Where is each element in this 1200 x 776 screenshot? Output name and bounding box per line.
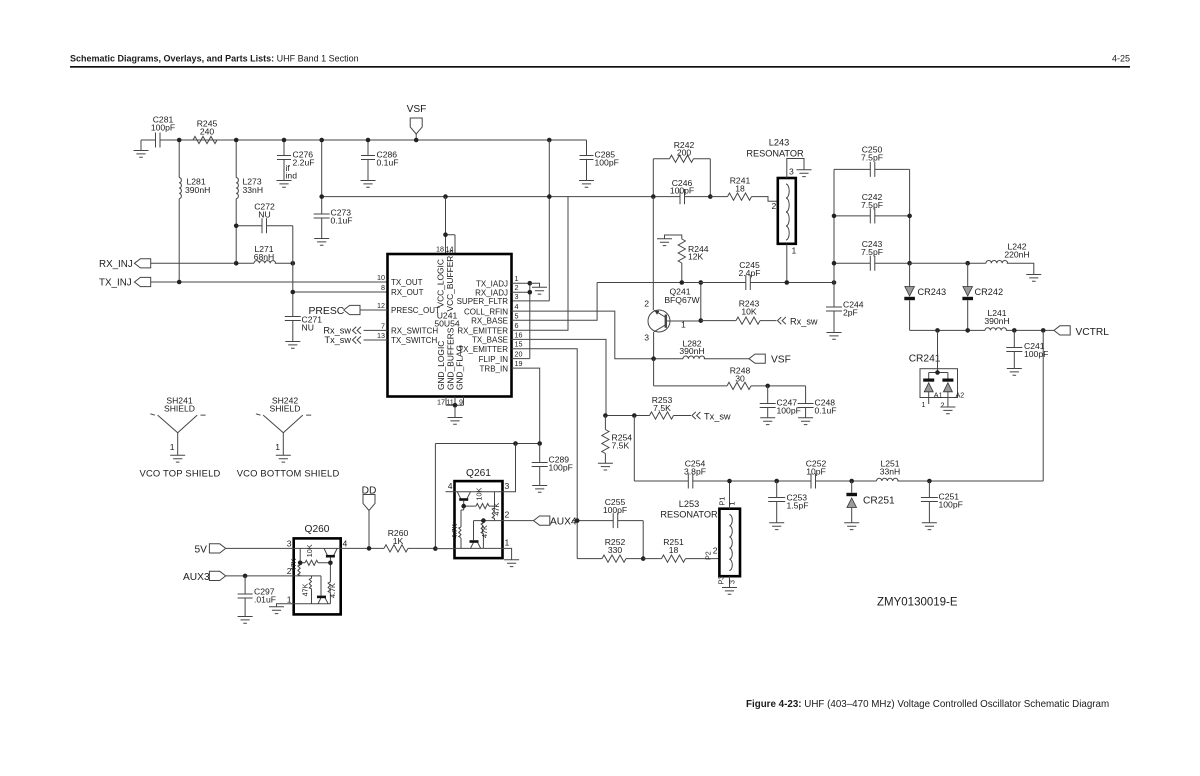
wire AUX3 to Q260 pin2 xyxy=(226,575,294,577)
svg-text:1: 1 xyxy=(505,538,510,548)
capacitor C251 xyxy=(928,481,930,523)
net stub Rx_sw (R243) xyxy=(778,317,786,324)
svg-text:15: 15 xyxy=(515,340,523,349)
internal lower transistor xyxy=(471,542,481,548)
wire R260 into Q261 xyxy=(435,548,454,550)
capacitor C271 (NU) xyxy=(285,317,301,342)
svg-text:TX_INJ: TX_INJ xyxy=(99,278,132,289)
pin 1 wire Q260 to ground xyxy=(277,604,294,607)
svg-text:A1: A1 xyxy=(934,390,943,399)
internal junction dots Q261 xyxy=(461,504,466,509)
junction dots C246/R242 xyxy=(651,194,656,199)
pin 2 wire Q261 to AUX4 xyxy=(503,520,534,522)
wire RX_OUT pin 8 to C271 column xyxy=(293,263,388,316)
varactor CR243 xyxy=(909,263,911,286)
ground for SH242 xyxy=(276,455,291,462)
junction dots Tx_sw rail xyxy=(603,413,608,418)
junction dot base column top xyxy=(699,280,704,285)
svg-text:33nH: 33nH xyxy=(243,185,264,195)
ground for C285 xyxy=(579,181,594,188)
connector AUX3 xyxy=(209,571,225,580)
svg-text:5: 5 xyxy=(515,311,519,320)
transistor pack Q261 box xyxy=(455,481,503,558)
svg-text:30: 30 xyxy=(735,374,745,384)
junction dot C272 left xyxy=(234,224,239,229)
capacitor bank verticals xyxy=(834,169,910,282)
svg-text:13: 13 xyxy=(377,331,385,340)
capacitor C285 xyxy=(586,140,588,181)
internal lower transistor Q260 xyxy=(318,598,328,604)
svg-text:L253: L253 xyxy=(679,499,699,509)
capacitor C289 xyxy=(539,444,541,486)
wire Q241 emitter node xyxy=(654,332,749,359)
internal bottom rail Q260 xyxy=(294,603,331,605)
svg-text:Rx_sw: Rx_sw xyxy=(790,317,818,327)
internal 4.7K resistor left xyxy=(461,506,464,548)
svg-text:7.5pF: 7.5pF xyxy=(861,200,883,210)
svg-text:Figure 4-23: UHF (403–470 MHz): Figure 4-23: UHF (403–470 MHz) Voltage C… xyxy=(746,699,1109,710)
junction dot emitter xyxy=(651,356,656,361)
wire pin15 TX_EMITTER down to AUX4 node xyxy=(512,349,578,520)
svg-text:3: 3 xyxy=(789,167,794,177)
ground for C286 xyxy=(361,181,376,188)
capacitor C242 xyxy=(834,215,910,217)
svg-text:RX_IADJ: RX_IADJ xyxy=(475,288,508,297)
junction dot R260/TRB column xyxy=(433,546,438,551)
svg-text:330: 330 xyxy=(608,545,623,555)
resistor R244 xyxy=(665,235,682,283)
ground for TX_IADJ/RX_IADJ xyxy=(530,283,540,287)
wire pin4 COLL_RFIN to emitter node xyxy=(512,311,654,359)
svg-text:2: 2 xyxy=(505,510,510,520)
inductor L282 xyxy=(683,356,705,359)
junction dots on top rail xyxy=(177,138,182,143)
svg-text:TX_IADJ: TX_IADJ xyxy=(476,279,508,288)
svg-text:33nH: 33nH xyxy=(880,467,901,477)
ground for Q261 pin1 xyxy=(504,560,519,567)
pin 3 wire and label L243 xyxy=(787,159,804,179)
svg-text:RESONATOR: RESONATOR xyxy=(746,149,804,159)
svg-text:3: 3 xyxy=(515,292,519,301)
svg-text:3: 3 xyxy=(287,539,292,549)
capacitor C255 xyxy=(613,513,618,528)
svg-text:SHIELD: SHIELD xyxy=(269,404,300,414)
wire C243 row to CR242 and L242 xyxy=(910,263,1034,274)
wire right return column to bottom rail xyxy=(1042,330,1044,481)
capacitor C253 xyxy=(776,481,778,523)
svg-text:SUPER_FLTR: SUPER_FLTR xyxy=(457,297,509,306)
pin 1 wire and label L243 xyxy=(786,244,788,283)
resonator L243 box xyxy=(778,178,796,244)
wire pin19 TRB_IN down to C289 node xyxy=(512,368,540,443)
wire column x=549.3 from top rail to pin3 SUPER_FLTR xyxy=(512,140,550,301)
capacitor C254 xyxy=(688,474,693,489)
wire Q241 collector column xyxy=(652,197,654,311)
ground for C241 xyxy=(1007,369,1022,376)
coil inside L253 xyxy=(729,515,732,571)
svg-text:7: 7 xyxy=(381,321,385,330)
wire TRB_IN net horizontal y=443.5 xyxy=(435,444,539,549)
internal 10K resistor Q260 xyxy=(300,548,330,562)
resistor R253 xyxy=(650,412,674,419)
internal junction dots Q260 xyxy=(328,561,333,566)
capacitor C252 xyxy=(811,474,816,489)
svg-text:100pF: 100pF xyxy=(939,500,963,510)
inductor L273 xyxy=(235,140,237,264)
svg-text:0.1uF: 0.1uF xyxy=(331,216,353,226)
wire emitter to R248 xyxy=(654,359,806,386)
shield SH241 symbol xyxy=(150,414,205,456)
coil inside L243 xyxy=(786,184,789,240)
junction dot R248/C247 xyxy=(765,384,770,389)
wire TX_INJ net y=282 to U241 pin 10 xyxy=(151,281,388,283)
wire pin1 TX_IADJ xyxy=(512,282,530,284)
resonator L253 box xyxy=(719,509,740,577)
Q261 internal circuit xyxy=(455,492,503,549)
svg-text:100pF: 100pF xyxy=(1024,349,1048,359)
wire pin2 RX_IADJ xyxy=(512,291,530,293)
ground for L242 xyxy=(1026,275,1041,282)
junction dot bottom pins xyxy=(453,403,458,408)
ground G1 left of C281 xyxy=(140,140,142,151)
wire top supply rail y=140 xyxy=(141,139,587,141)
junction dots bottom rail xyxy=(727,479,732,484)
wire VCC filter rail y=196.6 xyxy=(322,196,654,198)
svg-text:L243: L243 xyxy=(769,138,789,148)
svg-text:200: 200 xyxy=(677,148,692,158)
ground for CR251 xyxy=(844,523,859,530)
svg-text:240: 240 xyxy=(200,127,215,137)
svg-text:16: 16 xyxy=(515,330,523,339)
internal upper transistor xyxy=(457,492,470,499)
diode CR251 xyxy=(851,481,853,493)
capacitor C250 xyxy=(834,168,910,170)
connector RX_INJ xyxy=(134,259,150,268)
svg-text:VCO TOP SHIELD: VCO TOP SHIELD xyxy=(140,468,221,479)
svg-text:RESONATOR: RESONATOR xyxy=(660,510,718,520)
svg-text:1: 1 xyxy=(728,502,737,506)
wire PRESC to pin 12 xyxy=(360,309,388,311)
svg-text:3: 3 xyxy=(505,481,510,491)
wire 5V to Q260 pin3 xyxy=(226,547,294,549)
svg-text:100pF: 100pF xyxy=(549,463,573,473)
svg-text:P3: P3 xyxy=(717,576,726,585)
svg-text:47K: 47K xyxy=(480,525,489,538)
junction dot DD xyxy=(367,546,372,551)
internal bottom rail xyxy=(455,547,503,549)
Q260 internal circuit xyxy=(294,548,341,603)
pin 1 wire Q261 to ground xyxy=(503,548,512,559)
junction dots TRB net xyxy=(537,441,542,446)
pin 1 wire L253 xyxy=(729,481,731,509)
svg-text:4.7K: 4.7K xyxy=(328,583,337,598)
ground for CR241 A2 xyxy=(940,407,955,414)
svg-text:390nH: 390nH xyxy=(984,316,1009,326)
svg-text:7.5pF: 7.5pF xyxy=(861,153,883,163)
svg-text:TX_EMITTER: TX_EMITTER xyxy=(458,345,508,354)
svg-text:2: 2 xyxy=(515,283,519,292)
svg-text:2: 2 xyxy=(713,546,718,556)
diode pair CR241 box xyxy=(920,369,958,398)
capacitor C272 (NU) bridging L273 node to L271 right node xyxy=(236,218,293,263)
svg-text:COLL_RFIN: COLL_RFIN xyxy=(464,307,508,316)
svg-text:4: 4 xyxy=(343,539,348,549)
svg-text:Rx_sw: Rx_sw xyxy=(323,325,351,335)
svg-text:50U54: 50U54 xyxy=(434,319,460,329)
svg-text:2: 2 xyxy=(941,401,945,410)
ground for C271 xyxy=(285,342,300,349)
svg-text:SHIELD: SHIELD xyxy=(164,404,195,414)
pin 3 wire Q261 up to TRB net xyxy=(503,444,516,492)
connector AUX4 xyxy=(534,516,550,525)
capacitor C276 xyxy=(283,140,285,181)
junction dots cap bank xyxy=(832,214,837,219)
svg-text:NU: NU xyxy=(302,323,314,333)
resistor R241 xyxy=(710,197,778,202)
svg-text:DD: DD xyxy=(362,486,377,497)
junction dots pins 1,2 xyxy=(528,281,533,286)
internal top rail xyxy=(455,491,503,493)
diode CR241 A1 xyxy=(923,379,934,382)
svg-text:Q261: Q261 xyxy=(466,468,491,479)
shield SH242 symbol xyxy=(256,414,311,456)
svg-text:RX_SWITCH: RX_SWITCH xyxy=(391,327,438,336)
svg-text:FLIP_IN: FLIP_IN xyxy=(479,355,509,364)
svg-text:10: 10 xyxy=(377,273,385,282)
internal 47K resistor mid xyxy=(482,521,484,549)
wire pins 1/2/20 tie column xyxy=(512,283,530,358)
capacitor C247 xyxy=(767,386,769,418)
svg-text:1: 1 xyxy=(681,320,686,330)
svg-text:1K: 1K xyxy=(393,536,404,546)
capacitor C245 xyxy=(746,275,751,290)
connector DD xyxy=(363,495,375,511)
ground for C276 xyxy=(277,181,292,188)
svg-text:VCC_LOGIC: VCC_LOGIC xyxy=(436,259,446,307)
svg-text:4: 4 xyxy=(448,481,453,491)
internal 47K resistor left upper xyxy=(299,563,301,576)
ground for SH241 xyxy=(170,455,185,462)
connector 5V xyxy=(209,544,225,553)
svg-text:VSF: VSF xyxy=(771,355,791,366)
svg-text:PRESC: PRESC xyxy=(309,306,345,317)
internal 47K resistor mid Q260 xyxy=(311,576,313,604)
svg-text:3.8pF: 3.8pF xyxy=(684,467,706,477)
svg-text:TRB_IN: TRB_IN xyxy=(480,364,509,373)
svg-text:Schematic Diagrams, Overlays,: Schematic Diagrams, Overlays, and Parts … xyxy=(70,54,359,64)
ground for L253 pin3 xyxy=(722,588,737,595)
wire VCO output bottom rail y=481 xyxy=(634,480,1043,482)
header rule xyxy=(70,66,1130,68)
op-amp / IC U241 box xyxy=(388,254,512,397)
wire CR241 common xyxy=(929,330,948,378)
wire pin5 RX_BASE up to tank rail xyxy=(512,283,598,321)
svg-text:2: 2 xyxy=(644,299,649,309)
resistor R254 xyxy=(604,416,606,464)
svg-text:CR243: CR243 xyxy=(918,287,947,297)
svg-text:12: 12 xyxy=(377,301,385,310)
svg-text:47K: 47K xyxy=(289,558,298,571)
junction dot RX_OUT column xyxy=(291,290,296,295)
svg-text:1: 1 xyxy=(275,442,280,452)
svg-text:Tx_sw: Tx_sw xyxy=(704,412,731,422)
ground L243 pin3 xyxy=(797,170,812,177)
svg-text:100pF: 100pF xyxy=(670,185,694,195)
svg-text:TX_SWITCH: TX_SWITCH xyxy=(391,336,437,345)
capacitor C248 xyxy=(805,386,807,418)
svg-text:68nH: 68nH xyxy=(254,252,275,262)
svg-text:17: 17 xyxy=(437,397,445,406)
internal top rail Q260 xyxy=(294,547,341,549)
pin 4 wire Q260 to DD node xyxy=(341,547,384,549)
svg-text:BFQ67W: BFQ67W xyxy=(664,295,700,305)
svg-text:1: 1 xyxy=(170,442,175,452)
junction dot base line xyxy=(699,318,704,323)
ground for C273 xyxy=(314,239,329,246)
svg-text:7.5K: 7.5K xyxy=(612,441,630,451)
svg-text:19: 19 xyxy=(515,359,523,368)
svg-text:Tx_sw: Tx_sw xyxy=(324,335,351,345)
ground for C297 xyxy=(238,617,253,624)
wire pin6 RX_EMITTER up to VCC rail xyxy=(512,197,569,331)
svg-text:2.4pF: 2.4pF xyxy=(739,268,761,278)
wire pin16 TX_BASE down to Tx_sw rail xyxy=(512,339,607,415)
svg-text:TX_BASE: TX_BASE xyxy=(472,336,508,345)
junction dot R252/R251 xyxy=(641,556,646,561)
svg-text:VSF: VSF xyxy=(407,104,427,115)
resistor R242 loop over C246 xyxy=(653,159,710,197)
ground for R254 xyxy=(598,463,613,470)
junction dot AUX3/C297 xyxy=(243,574,248,579)
capacitor C281 xyxy=(156,133,161,148)
svg-text:VCTRL: VCTRL xyxy=(1076,327,1110,338)
internal 47K resistor right xyxy=(494,506,496,520)
connector VCTRL xyxy=(1054,326,1070,335)
svg-text:8: 8 xyxy=(381,283,385,292)
junction dots on VCC rail xyxy=(319,194,324,199)
svg-text:NU: NU xyxy=(258,210,270,220)
svg-text:4-25: 4-25 xyxy=(1112,54,1130,64)
resistor R248 xyxy=(727,382,751,389)
pin 3 wire L253 to ground xyxy=(729,576,731,587)
ground for C251 xyxy=(922,523,937,530)
varactor CR242 xyxy=(967,263,969,286)
svg-text:TX_OUT: TX_OUT xyxy=(391,278,423,287)
inductor L241 xyxy=(985,328,1007,331)
svg-text:100pF: 100pF xyxy=(595,158,619,168)
svg-text:CR251: CR251 xyxy=(863,496,895,507)
svg-text:1.5pF: 1.5pF xyxy=(787,501,809,511)
transistor pack Q260 box xyxy=(294,538,341,614)
connector VSF top xyxy=(410,118,422,134)
transistor Q241 xyxy=(648,310,701,332)
svg-text:RX_EMITTER: RX_EMITTER xyxy=(457,326,508,335)
svg-text:20: 20 xyxy=(515,350,523,359)
connector TX_INJ xyxy=(134,277,150,286)
junction dot CR241 xyxy=(935,370,940,375)
svg-text:10K: 10K xyxy=(305,544,314,557)
svg-text:0.1uF: 0.1uF xyxy=(815,406,837,416)
svg-text:5V: 5V xyxy=(195,544,208,555)
svg-text:RX_BASE: RX_BASE xyxy=(471,317,508,326)
resistor R245 xyxy=(193,136,217,143)
svg-text:18: 18 xyxy=(669,545,679,555)
svg-text:1: 1 xyxy=(922,400,926,409)
bottom pins 17 11 9 tie xyxy=(446,397,464,418)
wire column to bottom rail x=634.3 xyxy=(633,416,635,482)
svg-text:11: 11 xyxy=(446,397,453,406)
svg-text:10pF: 10pF xyxy=(806,467,826,477)
junction dot AUX4/pin15 xyxy=(575,518,580,523)
capacitor C246 xyxy=(653,196,710,198)
svg-text:1: 1 xyxy=(792,246,797,256)
ground for GND pins xyxy=(448,418,463,425)
svg-text:100pF: 100pF xyxy=(777,406,801,416)
svg-text:100pF: 100pF xyxy=(603,505,627,515)
svg-text:18: 18 xyxy=(735,184,745,194)
diode CR241 A2 xyxy=(942,379,953,382)
ground for C289 xyxy=(532,486,547,493)
svg-text:2: 2 xyxy=(772,201,777,211)
junction dots RX_INJ net xyxy=(234,261,239,266)
svg-text:P1: P1 xyxy=(718,497,727,506)
internal 10K resistor xyxy=(464,492,495,506)
wire main tank rail y=282.5 xyxy=(597,282,834,284)
resistor R251 xyxy=(643,558,719,560)
inductor L281 xyxy=(178,140,180,282)
capacitor C244 xyxy=(833,283,835,333)
svg-text:Q260: Q260 xyxy=(305,524,330,535)
net stub Tx_sw (R253) xyxy=(692,412,700,419)
svg-text:GND_LOGIC: GND_LOGIC xyxy=(436,341,446,390)
wire DD column xyxy=(368,511,370,549)
svg-text:1: 1 xyxy=(515,274,519,283)
capacitor C243 xyxy=(834,262,910,264)
resistor R243 xyxy=(701,320,777,322)
svg-text:6: 6 xyxy=(515,321,519,330)
wire AUX4 node xyxy=(572,521,643,559)
junction dot CR242 top xyxy=(965,261,970,266)
internal 4.7K resistor right Q260 xyxy=(329,563,331,604)
svg-text:7.5pF: 7.5pF xyxy=(861,247,883,257)
svg-text:10K: 10K xyxy=(474,488,483,501)
junction dot TX_INJ / L281 xyxy=(177,280,182,285)
svg-text:2pF: 2pF xyxy=(843,308,858,318)
svg-text:4.7K: 4.7K xyxy=(450,524,459,539)
inductor L251 xyxy=(877,478,899,481)
svg-text:220nH: 220nH xyxy=(1004,250,1029,260)
internal upper transistor Q260 xyxy=(324,548,337,555)
wire 18/14 supply column xyxy=(446,197,456,254)
svg-text:PRESC_OUT: PRESC_OUT xyxy=(391,306,440,315)
ground for C247 xyxy=(760,418,775,425)
junction dot 18/14 column xyxy=(443,232,448,237)
svg-text:4: 4 xyxy=(515,302,519,311)
svg-text:P2: P2 xyxy=(704,551,713,560)
svg-text:ZMY0130019-E: ZMY0130019-E xyxy=(877,597,958,609)
junction dots varactor rail xyxy=(935,328,940,333)
resistor R252 xyxy=(602,555,626,562)
capacitor C273 xyxy=(321,140,323,239)
wire Q241 base node column xyxy=(700,283,702,321)
svg-text:CR241: CR241 xyxy=(909,354,941,365)
svg-text:18: 18 xyxy=(436,245,444,254)
svg-text:2.2uF: 2.2uF xyxy=(293,158,315,168)
svg-text:3: 3 xyxy=(644,333,649,343)
svg-text:1: 1 xyxy=(287,595,292,605)
svg-text:390nH: 390nH xyxy=(185,185,210,195)
capacitor C286 xyxy=(367,140,369,181)
